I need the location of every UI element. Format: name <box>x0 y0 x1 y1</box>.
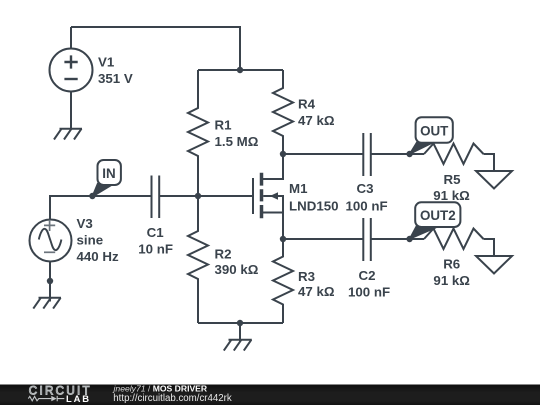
resistor R2 <box>188 196 208 323</box>
wire OUT2 net: source to C2 <box>283 238 363 240</box>
svg-text:1.5 MΩ: 1.5 MΩ <box>215 134 259 149</box>
svg-text:V1: V1 <box>98 55 115 70</box>
resistor R5 <box>424 144 484 165</box>
wire V1 bottom stem <box>70 92 72 130</box>
svg-text:M1: M1 <box>289 181 308 196</box>
label R4 value <box>298 97 335 129</box>
label R6 value <box>433 257 470 288</box>
ground (V3) <box>33 298 61 309</box>
svg-text:C1: C1 <box>147 225 165 240</box>
label V1 value <box>98 55 133 87</box>
svg-text:91 kΩ: 91 kΩ <box>433 273 470 288</box>
drain arm <box>262 154 283 179</box>
junction dot bottom rail <box>237 320 243 326</box>
junction dot OUT2 anchor <box>406 236 412 242</box>
source arm <box>262 213 283 240</box>
svg-text:C3: C3 <box>357 181 374 196</box>
svg-text:47 kΩ: 47 kΩ <box>298 113 335 128</box>
wire IN net: V3 to C1 left plate <box>50 196 152 220</box>
label V3 value <box>77 216 119 264</box>
svg-text:sine: sine <box>77 233 104 248</box>
label C1 value <box>138 225 173 256</box>
svg-text:R6: R6 <box>443 257 460 272</box>
svg-text:R3: R3 <box>298 269 315 284</box>
ground (bottom rail) <box>224 323 252 351</box>
body arm <box>263 196 283 213</box>
junction dot OUT anchor <box>406 151 412 157</box>
label R5 value <box>433 172 470 203</box>
label R2 value <box>215 247 259 277</box>
label C3 value <box>345 181 387 213</box>
junction dot V3 ground <box>47 278 53 284</box>
resistor R3 <box>273 239 293 323</box>
wire C3 to R5 <box>371 153 424 155</box>
svg-text:http://circuitlab.com/cr442rk: http://circuitlab.com/cr442rk <box>113 393 232 404</box>
wire V3 bottom stem <box>49 262 51 302</box>
svg-text:R2: R2 <box>215 247 232 262</box>
svg-text:LAB: LAB <box>66 393 91 404</box>
logo squiggle <box>28 396 64 401</box>
svg-text:R1: R1 <box>215 118 233 133</box>
svg-text:OUT: OUT <box>420 123 449 138</box>
label R1 value <box>215 118 259 150</box>
svg-text:OUT2: OUT2 <box>420 208 456 223</box>
svg-text:47 kΩ: 47 kΩ <box>298 284 335 299</box>
capacitor C3 <box>363 133 371 176</box>
svg-text:jneely71 / MOS DRIVER: jneely71 / MOS DRIVER <box>113 383 208 393</box>
junction dot drain node <box>280 151 286 157</box>
node OUT flag <box>410 117 453 154</box>
channel bars <box>260 173 264 218</box>
resistor R6 <box>424 229 484 250</box>
svg-text:C2: C2 <box>359 268 376 283</box>
label R3 value <box>298 269 335 299</box>
ground (V1) <box>54 129 82 140</box>
svg-text:100 nF: 100 nF <box>348 284 390 299</box>
node OUT2 flag <box>410 202 461 239</box>
junction dot IN anchor <box>89 193 95 199</box>
wire R5 to ground <box>484 154 495 171</box>
wire OUT net: drain to C3 <box>283 153 363 155</box>
junction dot top rail <box>237 67 243 73</box>
ground (R6, triangle) <box>476 256 512 274</box>
body arrow M1 <box>270 192 278 199</box>
node IN flag <box>92 160 121 197</box>
voltage source V1 <box>50 49 93 92</box>
wire upper rail R1-R4 <box>198 69 283 71</box>
wire C1 right plate to gate <box>159 195 253 197</box>
svg-text:351 V: 351 V <box>98 71 133 86</box>
wire bottom rail R2 to R3 <box>198 322 283 324</box>
wire R6 to ground <box>484 239 495 256</box>
voltage source V3 (sine) <box>30 220 72 262</box>
svg-text:390 kΩ: 390 kΩ <box>215 262 259 277</box>
capacitor C1 <box>152 176 160 219</box>
junction dot R1/R2/C1/gate <box>195 193 201 199</box>
svg-text:R4: R4 <box>298 97 316 112</box>
ground (R5, triangle) <box>476 171 512 189</box>
svg-text:91 kΩ: 91 kΩ <box>433 188 470 203</box>
wire V1 top stem <box>70 27 72 49</box>
wire top rail V1 to branch <box>71 27 240 70</box>
label M1 value <box>289 181 339 213</box>
junction dot source node <box>280 236 286 242</box>
capacitor C2 <box>363 218 371 261</box>
wire C2 to R6 <box>371 238 424 240</box>
label C2 value <box>348 268 390 300</box>
svg-text:10 nF: 10 nF <box>138 241 173 256</box>
transistor M1 (N-MOSFET) <box>253 154 283 239</box>
svg-text:LND150: LND150 <box>289 198 339 213</box>
svg-text:IN: IN <box>102 166 115 181</box>
svg-text:100 nF: 100 nF <box>345 198 387 213</box>
resistor R4 <box>273 70 293 154</box>
svg-text:R5: R5 <box>444 172 462 187</box>
svg-text:440 Hz: 440 Hz <box>77 249 119 264</box>
svg-text:V3: V3 <box>77 216 93 231</box>
resistor R1 <box>188 70 208 196</box>
gate plate <box>252 178 254 214</box>
